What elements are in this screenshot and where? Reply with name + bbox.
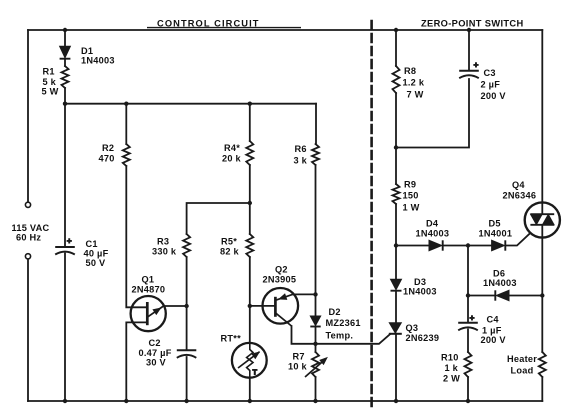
svg-text:R1: R1 [43, 67, 55, 77]
thermistor RT [232, 343, 267, 378]
resistor R5 [246, 234, 253, 257]
svg-text:R2: R2 [102, 143, 114, 153]
diode D2 [310, 316, 320, 326]
svg-text:2 W: 2 W [443, 373, 460, 383]
svg-text:R3: R3 [157, 236, 169, 246]
svg-text:D1: D1 [81, 46, 93, 56]
svg-text:Q4: Q4 [512, 180, 525, 190]
svg-text:20 k: 20 k [222, 154, 242, 164]
wire Q3 cathode to rail [395, 334, 397, 401]
wire left source column upper [27, 30, 29, 202]
svg-text:0.47 µF: 0.47 µF [139, 348, 172, 358]
resistor R9 [393, 184, 400, 204]
resistor R8 [393, 66, 400, 93]
wire D3 cathode to Q3 anode [395, 291, 397, 323]
svg-text:Q3: Q3 [406, 323, 419, 333]
svg-text:D5: D5 [489, 219, 501, 229]
svg-text:C4: C4 [487, 315, 500, 325]
svg-text:10 k: 10 k [288, 362, 308, 372]
svg-text:D3: D3 [414, 277, 426, 287]
svg-text:1N4003: 1N4003 [403, 286, 437, 296]
resistor R4 [246, 141, 253, 165]
svg-text:T: T [253, 368, 258, 377]
diode D6 [496, 290, 509, 300]
wire R6 top lead from bus [315, 104, 317, 144]
svg-text:Q1: Q1 [142, 274, 155, 284]
svg-text:C3: C3 [484, 68, 496, 78]
wire C2 bottom to rail [186, 357, 188, 401]
svg-text:+: + [67, 236, 72, 246]
wire node down to C1 [64, 104, 66, 247]
svg-text:R10: R10 [441, 353, 459, 363]
svg-text:5 k: 5 k [43, 77, 57, 87]
wire D1 anode from top rail [64, 30, 66, 46]
wire Q2 base node down to RT [249, 306, 251, 343]
svg-text:2N6346: 2N6346 [503, 190, 537, 200]
wire D6 node down to C4 [467, 296, 469, 323]
svg-text:R6: R6 [295, 144, 307, 154]
wire R5 bottom to Q2 base node [249, 257, 251, 306]
resistor R3 [183, 234, 190, 257]
svg-text:R9: R9 [404, 179, 416, 189]
wire top supply rail [28, 29, 542, 31]
wire D5 cathode to Q4 gate [505, 233, 530, 246]
capacitor C4 [458, 313, 478, 331]
transistor Q2 [250, 288, 298, 326]
svg-text:150: 150 [403, 191, 419, 201]
wire node to R7 [315, 344, 317, 352]
terminal lower 115VAC [25, 254, 30, 259]
wire bottom return rail [28, 400, 542, 402]
wire R4 top lead [249, 104, 251, 141]
diode D5 [492, 240, 505, 250]
svg-text:3 k: 3 k [294, 156, 308, 166]
wire C3 bottom to R8-R9 node [396, 79, 469, 148]
wire R10 bottom to rail [467, 377, 469, 401]
wire R6 bottom to Q2 emitter node [315, 165, 317, 294]
wire R2 top lead [125, 104, 127, 144]
wire Q2 collector down and across to Q3 gate [292, 326, 391, 344]
svg-text:200 V: 200 V [481, 335, 507, 345]
svg-text:2N4870: 2N4870 [132, 284, 166, 294]
svg-text:1N4003: 1N4003 [483, 278, 517, 288]
terminal upper 115VAC [25, 202, 30, 207]
svg-text:+: + [470, 313, 475, 323]
svg-text:C2: C2 [149, 338, 161, 348]
resistor heater load [539, 352, 546, 377]
svg-text:ZERO-POINT SWITCH: ZERO-POINT SWITCH [421, 18, 524, 28]
svg-text:R4*: R4* [224, 143, 240, 153]
svg-text:7 W: 7 W [407, 90, 424, 100]
wire C4 node to D5 anode [468, 245, 492, 247]
svg-text:D6: D6 [493, 269, 505, 279]
svg-text:2 µF: 2 µF [481, 80, 501, 90]
svg-text:50 V: 50 V [86, 258, 107, 268]
wire left source column lower [27, 259, 29, 401]
wire D2 cathode to collector node [315, 327, 317, 344]
wire D4 cathode to C4 node [443, 245, 468, 247]
wire R1 bottom to node [64, 88, 66, 104]
svg-text:R8: R8 [404, 66, 416, 76]
svg-text:CONTROL CIRCUIT: CONTROL CIRCUIT [157, 18, 260, 28]
wire R9 bottom to D4 node [395, 204, 397, 246]
svg-text:2N3905: 2N3905 [263, 275, 297, 285]
wire node to D2 [315, 294, 317, 316]
svg-text:Q2: Q2 [275, 265, 288, 275]
svg-text:82 k: 82 k [220, 247, 240, 257]
wire C4 column to D6 cathode [468, 295, 495, 297]
svg-text:30 V: 30 V [146, 358, 167, 368]
rheostat R7 [312, 352, 319, 377]
diode D1 [60, 46, 71, 58]
svg-text:5 W: 5 W [42, 87, 59, 97]
wire R8 top from rail [395, 30, 397, 66]
svg-text:1 k: 1 k [445, 363, 459, 373]
thyristor Q3 [389, 323, 402, 334]
wire D1 cathode to R1 [64, 59, 66, 66]
svg-text:D2: D2 [329, 307, 341, 317]
wire C1 bottom to rail [64, 254, 66, 402]
svg-text:D4: D4 [426, 219, 439, 229]
capacitor C1 [55, 236, 75, 255]
wire C3 node down to R9 [395, 148, 397, 185]
wire Q4 main terminal 1 down to D6 node [541, 238, 543, 296]
wire Q2 emitter to R6-D2 node [293, 293, 316, 295]
diode D3 [391, 279, 402, 290]
wire R7 bottom to rail [315, 377, 317, 401]
wire D6 node down to heater load [541, 296, 543, 353]
resistor R10 [465, 352, 472, 377]
resistor R2 [123, 144, 130, 166]
diode D4 [429, 240, 442, 250]
wire C3 top from rail [468, 30, 470, 71]
wire D6 anode to Q4 main column [509, 295, 542, 297]
wire mid horizontal bus (R1 bottom to R6 top) [65, 103, 316, 105]
resistor R6 [312, 144, 319, 165]
svg-text:Temp.: Temp. [326, 331, 354, 341]
svg-text:330 k: 330 k [152, 247, 177, 257]
svg-text:1N4001: 1N4001 [479, 228, 513, 238]
triac Q4 [525, 202, 560, 237]
svg-text:1.2 k: 1.2 k [403, 78, 425, 88]
svg-text:+: + [474, 60, 479, 70]
wire R9 node to D4 anode [396, 245, 429, 247]
svg-text:Heater: Heater [507, 354, 537, 364]
resistor R1 [62, 66, 69, 88]
capacitor C2 [177, 350, 197, 358]
svg-text:R7: R7 [293, 352, 305, 362]
rheostat arrow R7 [305, 357, 327, 377]
wire node to R5 [249, 203, 251, 234]
wire D4 node down to D3 [395, 246, 397, 280]
wire R3 bottom to Q1 emitter node [186, 257, 188, 306]
wire top rail to Q4 main terminal 2 [541, 30, 543, 203]
unijunction transistor Q1 [131, 296, 166, 331]
svg-text:RT**: RT** [221, 334, 242, 344]
wire Q1 emitter to R3-C2 node [164, 305, 187, 307]
dashed separator line between control circuit and zero-point switch [370, 21, 373, 408]
wire node down to C2 [186, 306, 188, 350]
wire RT bottom to rail [249, 378, 251, 401]
svg-text:1N4003: 1N4003 [416, 228, 450, 238]
svg-text:2N6239: 2N6239 [406, 333, 440, 343]
wire R8 bottom to C3 node [395, 93, 397, 148]
svg-text:MZ2361: MZ2361 [326, 318, 361, 328]
wire D4-D5 node down to D6 node [467, 246, 469, 296]
svg-text:60 Hz: 60 Hz [16, 232, 41, 242]
wire R4 bottom to node [249, 165, 251, 203]
svg-text:470: 470 [99, 154, 115, 164]
wire R4-R5 node across to R3 top [187, 203, 250, 234]
wire R2 bottom to Q1 base-two lead [126, 166, 147, 307]
svg-text:R5*: R5* [221, 236, 237, 246]
svg-text:1 W: 1 W [403, 202, 420, 212]
wire Q1 base-one lead to bottom rail [126, 322, 147, 401]
wire heater load bottom to rail [541, 377, 543, 401]
capacitor C3 [459, 60, 479, 79]
svg-text:40 µF: 40 µF [84, 248, 109, 258]
svg-text:C1: C1 [86, 239, 98, 249]
svg-text:115 VAC: 115 VAC [12, 223, 50, 233]
wire C4 bottom to R10 [467, 330, 469, 353]
svg-text:Load: Load [511, 365, 534, 375]
svg-text:1N4003: 1N4003 [81, 56, 115, 66]
svg-text:200 V: 200 V [481, 91, 507, 101]
